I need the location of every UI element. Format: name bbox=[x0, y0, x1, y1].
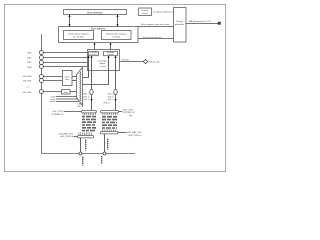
svg-text:(4 x 16 bits): (4 x 16 bits) bbox=[73, 35, 84, 38]
svg-text:circuits: circuits bbox=[107, 53, 113, 56]
pin TCLKC bbox=[27, 61, 88, 65]
svg-text:circuits: circuits bbox=[99, 65, 105, 68]
input filter box 2 bbox=[62, 90, 71, 95]
digital circuits container bbox=[88, 50, 120, 71]
node label match ch2 bbox=[118, 131, 142, 137]
clock selector mux bbox=[77, 68, 83, 106]
timing generator box U2 bbox=[174, 8, 187, 43]
node phi1 bbox=[51, 97, 77, 99]
wire mux to register circuits bbox=[83, 56, 110, 85]
svg-text:Internal data registers: Internal data registers bbox=[68, 32, 88, 35]
register data registers box bbox=[102, 31, 132, 40]
svg-text:Input: Input bbox=[65, 76, 70, 79]
svg-text:STOPMD 2-0: STOPMD 2-0 bbox=[51, 114, 64, 116]
pin channel 2 out bbox=[102, 152, 107, 164]
wire xAB timestamp to CTC bbox=[186, 20, 221, 25]
svg-text:xUK_MAT_CH0: xUK_MAT_CH0 bbox=[59, 132, 74, 135]
svg-text:xUK_CTRL/: xUK_CTRL/ bbox=[123, 109, 134, 111]
node bubble channel 2 bbox=[114, 89, 117, 94]
wire data registers to counter circuits bbox=[93, 43, 95, 52]
svg-text:xUK pin info: xUK pin info bbox=[149, 61, 161, 63]
counter circuits box bbox=[89, 51, 99, 56]
channel 1 comb bottom bbox=[78, 132, 94, 138]
channel 1 comb top bbox=[82, 111, 97, 116]
wire channel 1 output bbox=[81, 138, 87, 154]
svg-text:counting, matching, etc.: counting, matching, etc. bbox=[153, 11, 175, 14]
svg-text:xIN TLB: xIN TLB bbox=[122, 59, 130, 61]
channel 2 comb top bbox=[101, 111, 119, 116]
pin channel 1 out bbox=[79, 152, 84, 166]
svg-text:xUK_a: xUK_a bbox=[83, 94, 90, 96]
border frame bbox=[5, 5, 226, 172]
svg-text:digital: digital bbox=[100, 62, 106, 65]
svg-text:filter: filter bbox=[65, 78, 69, 81]
svg-text:Sys: Sys bbox=[129, 115, 132, 117]
svg-text:xUK_SYNC in: xUK_SYNC in bbox=[60, 136, 73, 138]
svg-text:xUK_b: xUK_b bbox=[108, 96, 115, 98]
svg-text:xUK_d: xUK_d bbox=[103, 102, 109, 104]
svg-text:filter: filter bbox=[64, 91, 68, 94]
svg-text:x x: x x bbox=[26, 86, 29, 88]
svg-text:xUK_SYNC in: xUK_SYNC in bbox=[129, 135, 142, 137]
wire register to channel 2 bbox=[114, 56, 116, 111]
svg-text:circuits: circuits bbox=[142, 12, 148, 15]
control logic box bbox=[139, 8, 152, 16]
wire channel 2 output bbox=[105, 134, 109, 154]
wire filter to selector A bbox=[72, 76, 77, 78]
wire segment carry over bbox=[138, 23, 174, 27]
node label ctrl right bbox=[119, 109, 136, 116]
svg-text:xAB (timestamp to CTC): xAB (timestamp to CTC) bbox=[189, 20, 212, 23]
wire filter to selector B bbox=[72, 80, 77, 82]
pin xUK_EN0 bbox=[23, 75, 63, 79]
channel 2 comb bottom bbox=[101, 129, 119, 134]
svg-text:Bus interface: Bus interface bbox=[87, 10, 103, 14]
pin TCLKA bbox=[27, 51, 88, 55]
svg-text:xck/16: xck/16 bbox=[49, 101, 56, 103]
node label ctrl left bbox=[51, 111, 81, 116]
svg-text:xUK_c: xUK_c bbox=[108, 99, 114, 101]
pin xUK_EN1 bbox=[23, 79, 63, 83]
module left border bbox=[41, 34, 43, 154]
svg-text:xUK_e: xUK_e bbox=[77, 106, 84, 108]
wire xIN pin info bbox=[120, 59, 161, 63]
svg-text:xUK_a: xUK_a bbox=[108, 94, 115, 96]
node phi16 bbox=[49, 101, 79, 103]
channel 2 register stack bbox=[103, 116, 117, 129]
module bottom border bbox=[42, 153, 136, 155]
wire bus interface to data registers right bbox=[116, 15, 118, 27]
input filter box bbox=[63, 71, 73, 86]
svg-text:xUK_MAT_CH2: xUK_MAT_CH2 bbox=[127, 131, 142, 134]
node bubble channel 1 bbox=[90, 89, 93, 94]
wire data registers to register circuits bbox=[109, 43, 111, 52]
svg-text:xUK_EN0: xUK_EN0 bbox=[23, 76, 33, 78]
svg-text:Sort of carry over out: Sort of carry over out bbox=[143, 36, 162, 39]
node phi4 bbox=[51, 99, 78, 101]
svg-text:Data registers: Data registers bbox=[91, 27, 106, 30]
pin xUK_EN2 bbox=[23, 90, 62, 94]
register circuits box bbox=[104, 51, 118, 56]
wire mux to counter circuits bbox=[83, 56, 90, 78]
svg-text:xUK_CTRL/: xUK_CTRL/ bbox=[53, 111, 64, 113]
svg-text:Set of segment carry over in/o: Set of segment carry over in/out bbox=[141, 23, 170, 26]
wire sort of carry over bbox=[138, 36, 174, 39]
svg-text:xUK_EN1: xUK_EN1 bbox=[23, 80, 33, 82]
pin TCLKD bbox=[27, 65, 88, 69]
node label channel1 regs bbox=[77, 94, 90, 109]
pin TCLKB bbox=[27, 56, 88, 60]
internal data registers box bbox=[64, 31, 94, 40]
wire filter2 to selector bbox=[70, 91, 77, 93]
svg-text:xUK_b: xUK_b bbox=[83, 96, 90, 98]
svg-text:circuits: circuits bbox=[90, 53, 96, 56]
svg-text:xUK_EN2: xUK_EN2 bbox=[23, 92, 33, 94]
wire counter to channel 1 bbox=[90, 56, 92, 111]
data registers container bbox=[59, 27, 139, 43]
svg-text:Leading to: Leading to bbox=[98, 60, 109, 63]
node label match ch1 bbox=[59, 132, 78, 138]
node label channel2 regs bbox=[103, 94, 114, 105]
svg-text:Control: Control bbox=[142, 9, 149, 12]
svg-text:(16 bits): (16 bits) bbox=[113, 35, 121, 38]
svg-text:Timing: Timing bbox=[176, 21, 183, 23]
svg-text:generator: generator bbox=[175, 23, 185, 26]
bus interface box U1 bbox=[64, 10, 127, 15]
svg-text:Register data registers: Register data registers bbox=[106, 32, 127, 35]
svg-text:xUK_c: xUK_c bbox=[83, 99, 89, 101]
svg-text:STOPMD 2-0: STOPMD 2-0 bbox=[123, 112, 136, 114]
wire bus interface to data registers left bbox=[68, 15, 70, 27]
channel 1 register stack bbox=[83, 116, 96, 132]
